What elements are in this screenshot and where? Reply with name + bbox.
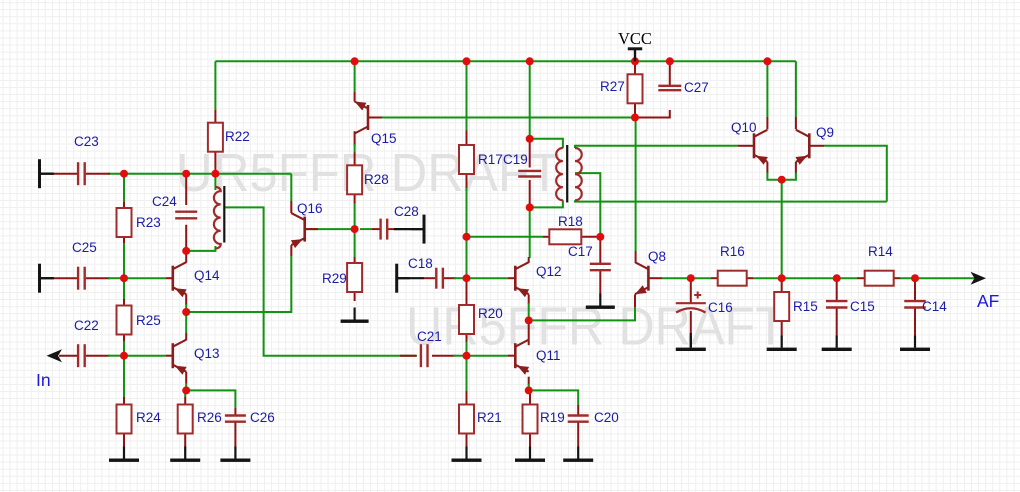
capacitor C27 (658, 80, 708, 95)
wire Q11 emitter lead (528, 377, 530, 385)
wire C19 top lead (529, 139, 531, 168)
wire R14 left lead (857, 277, 865, 279)
wire input row (108, 173, 291, 175)
wire Q9 emitter lead (795, 162, 797, 174)
resistor R21 (459, 405, 502, 434)
wire R20 bottom lead (466, 335, 468, 342)
wire emitter join left (767, 173, 781, 180)
wire C16 ground stem (690, 333, 692, 348)
ground R29 (341, 308, 369, 323)
resistor R19 (523, 405, 565, 434)
wire Q15 base stub (368, 117, 382, 119)
svg-text:R24: R24 (136, 410, 161, 425)
ground R15 (767, 336, 797, 351)
capacitor C17 (568, 244, 611, 270)
wire Q14 base stub (166, 277, 173, 279)
wire C18 terminal lead (398, 277, 424, 279)
wire C27 bottom link (635, 110, 670, 118)
node rail-C27 (666, 57, 674, 65)
resistor R23 (117, 208, 161, 237)
node Q11-emitter-node (525, 386, 533, 394)
resistor R24 (117, 405, 162, 434)
svg-text:Q11: Q11 (536, 348, 561, 363)
capacitor C25 (72, 240, 97, 290)
wire C26 bottom lead (234, 422, 236, 447)
wire R28 bottom lead (354, 194, 356, 204)
wire Q9 collector lead (795, 117, 797, 129)
svg-text:Q8: Q8 (648, 249, 666, 264)
wire C21 lead left (400, 355, 416, 357)
capacitor C19 (503, 152, 541, 177)
wire coil tap line (225, 207, 417, 355)
wire primary bottom link (530, 200, 563, 207)
wire R23 top (123, 174, 125, 202)
wire R18 left wire (467, 236, 544, 238)
svg-text:R28: R28 (364, 172, 389, 187)
capacitor C16 (676, 292, 733, 316)
wire Q13 base wire (124, 355, 166, 357)
wire C27 top lead (669, 61, 671, 85)
wire R25 to node (123, 341, 125, 356)
svg-text:Q15: Q15 (371, 131, 397, 146)
wire secondary top link (575, 146, 738, 148)
resistor R22 (208, 123, 250, 152)
wire Q14 collector lead (185, 251, 187, 263)
transistor Q8 (635, 249, 666, 294)
wire C28 to terminal (394, 228, 424, 230)
svg-text:In: In (36, 370, 51, 390)
resistor R26 (178, 405, 222, 434)
transformer T1 primary (556, 148, 563, 200)
wire Q15 emitter lead (354, 92, 356, 102)
wire C14 bottom lead (914, 308, 916, 336)
transistor Q13 (173, 340, 220, 375)
resistor R14 (865, 244, 894, 286)
svg-text:C16: C16 (708, 300, 733, 315)
wire Q11 base wire (467, 355, 509, 357)
wire C28 right lead (388, 228, 396, 230)
wire In shaft (59, 355, 77, 357)
wire C23 terminal lead (40, 173, 54, 175)
wire C23 right lead (86, 173, 110, 175)
svg-text:C28: C28 (394, 204, 419, 219)
wire secondary bottom link (575, 200, 887, 201)
wire Q13 emitter lead (185, 372, 187, 384)
node rail-Q15 (351, 57, 359, 65)
svg-text:R23: R23 (136, 215, 161, 230)
wire Q11 emitter green (528, 384, 530, 390)
capacitor C14 (904, 299, 947, 314)
wire R18 left lead (543, 236, 550, 238)
wire C20 top lead (577, 405, 579, 415)
transistor Q11 (515, 340, 560, 375)
wire Q10 collector lead (766, 117, 768, 129)
wire emitter drop (781, 180, 783, 279)
svg-text:C18: C18 (408, 256, 433, 271)
wire coil bottom link (186, 246, 215, 251)
wire Q11 emitter row (529, 390, 579, 405)
node C14-node (911, 274, 919, 282)
svg-text:C26: C26 (250, 410, 275, 425)
wire C25 right lead (86, 277, 110, 279)
node C15-node (833, 274, 841, 282)
ground C15 (822, 336, 852, 351)
svg-text:C15: C15 (850, 299, 875, 314)
wire R22 to coil (214, 174, 216, 190)
svg-text:C23: C23 (74, 134, 99, 149)
ground R24 (109, 447, 139, 462)
wire C21 right lead (432, 355, 455, 357)
wire Q14 emitter row (186, 256, 291, 312)
wire R26 top lead (184, 397, 186, 405)
power VCC (618, 29, 652, 61)
node Q9Q10-emitter-node (778, 176, 786, 184)
port In arrow (47, 349, 63, 362)
terminal input top (38, 159, 54, 188)
wire R28 to node (354, 204, 356, 230)
wire Q8 collector line (635, 118, 637, 252)
wire R19 top lead (529, 390, 531, 404)
wire VCC rail (215, 60, 796, 62)
svg-text:R25: R25 (136, 313, 161, 328)
svg-text:R27: R27 (600, 79, 625, 94)
wire C24 branch (185, 174, 187, 205)
wire Q9 base stub (809, 145, 824, 147)
port AF arrow (971, 272, 987, 285)
wire Q16 base stub (305, 228, 318, 230)
wire C15 bottom lead (836, 308, 838, 336)
wire R25 bottom lead (123, 334, 125, 341)
wire Q9 collector feed (795, 61, 797, 117)
wire R14 right lead (894, 277, 901, 279)
wire R29 top (354, 229, 356, 257)
wire Q12 base wire (467, 277, 509, 279)
wire C25 terminal lead (41, 277, 54, 279)
svg-text:Q13: Q13 (194, 346, 220, 361)
resistor R15 (774, 292, 818, 321)
svg-text:R14: R14 (868, 244, 893, 259)
wire R17 top feed (466, 61, 468, 130)
wire R21 top (466, 356, 468, 391)
svg-text:C21: C21 (417, 329, 442, 344)
wire Q11 base stub (508, 355, 515, 357)
wire R28 top lead (354, 153, 356, 166)
resistor R18 (549, 214, 582, 244)
wire R24 top (123, 356, 125, 397)
wire Q16 base wire (306, 228, 355, 230)
wire output line 2 (753, 277, 857, 279)
svg-text:C22: C22 (74, 318, 99, 333)
wire Q10 emitter lead (766, 162, 768, 174)
terminal C28 end (411, 215, 426, 244)
svg-text:Q9: Q9 (816, 125, 834, 140)
capacitor C21 (417, 329, 442, 367)
wire base rail Q15 (381, 117, 635, 119)
wire Q8 emitter lead (634, 294, 636, 307)
svg-text:R18: R18 (558, 214, 583, 229)
resistor R16 (718, 244, 747, 286)
wire R20 top lead (466, 278, 468, 304)
wire Q13 base stub (166, 355, 173, 357)
svg-text:R26: R26 (197, 410, 222, 425)
svg-text:Q12: Q12 (536, 264, 562, 279)
svg-text:VCC: VCC (618, 29, 652, 48)
node C24-L-node (182, 247, 190, 255)
wire R22 top lead (214, 110, 216, 124)
wire Q13 collector lead (185, 333, 187, 340)
wire R18 right lead (581, 236, 600, 238)
svg-text:R20: R20 (478, 306, 503, 321)
svg-text:R29: R29 (322, 271, 347, 286)
wire R17 bottom lead (466, 174, 468, 190)
wire C23 left lead (54, 173, 77, 175)
wire R22 top feed (214, 61, 216, 110)
wire R29 bottom lead (354, 291, 356, 301)
wire Q13 emitter row (186, 390, 235, 408)
terminal input mid (38, 264, 54, 293)
ground C16 (676, 336, 706, 351)
transistor Q10 (731, 120, 768, 165)
ground C20 (563, 447, 593, 462)
svg-text:R19: R19 (540, 410, 565, 425)
wire Q12 base stub (508, 277, 515, 279)
node rail-R17 (463, 57, 471, 65)
wire Q16 collector lead (290, 201, 292, 213)
wire Q14 emitter green (185, 304, 187, 312)
node rail-C19 (526, 57, 534, 65)
ground C17 (586, 294, 615, 309)
wire R22 bottom lead (214, 151, 216, 174)
node R15-node (778, 274, 786, 282)
svg-text:C17: C17 (568, 244, 593, 259)
node Q16-base-node (351, 225, 359, 233)
wire R23 bottom lead (123, 236, 125, 243)
terminal C18 end (395, 264, 410, 293)
transformer T1 secondary (575, 148, 582, 200)
wire Q12 emitter green (528, 303, 530, 320)
svg-text:C25: C25 (72, 240, 97, 255)
wire primary top link (530, 139, 563, 148)
transistor Q14 (173, 262, 220, 297)
wire Q15 collector green (354, 144, 356, 153)
wire output line 3 (900, 277, 977, 279)
wire C18 left lead (424, 277, 435, 279)
wire R19 bottom lead (529, 434, 531, 448)
wire Q15 emitter to rail (354, 61, 356, 92)
wire C14 top lead (914, 278, 916, 301)
wire R26 bottom lead (184, 434, 186, 448)
ground R19 (515, 447, 545, 462)
capacitor C26 (225, 410, 275, 425)
wire R16 left lead (711, 277, 718, 279)
resistor R27 (600, 74, 643, 103)
node input-R23 (120, 170, 128, 178)
wire secondary tap link (575, 173, 600, 237)
wire Q12 collector (529, 207, 531, 258)
wire R24 top lead (123, 397, 125, 405)
ground R26 (170, 447, 200, 462)
wire R15 top lead (781, 278, 783, 291)
wire C19 top feed (529, 61, 531, 139)
transistor Q9 (796, 125, 835, 165)
ground R21 (452, 447, 482, 462)
svg-text:C27: C27 (684, 80, 709, 95)
inductor L1 core (223, 186, 225, 243)
wire R23 to node (123, 243, 125, 278)
wire C16 bottom lead (690, 311, 692, 334)
capacitor C23 (74, 134, 99, 185)
node C22-node (120, 352, 128, 360)
capacitor C20 (568, 410, 619, 425)
wire C20 bottom lead (577, 422, 579, 447)
ground C26 (220, 447, 250, 462)
svg-text:Q14: Q14 (194, 268, 220, 283)
resistor R20 (459, 305, 503, 334)
wire Q13 emitter green (185, 383, 187, 390)
svg-text:C24: C24 (152, 194, 177, 209)
wire C28 left green (360, 228, 372, 230)
wire C24 bottom lead (185, 225, 187, 251)
wire output line 1 (691, 277, 711, 279)
node input-C24 (182, 170, 190, 178)
wire Q8 base wire (662, 277, 691, 279)
wire R27 top lead (634, 61, 636, 75)
wire Q16 collector drop (290, 174, 292, 201)
wire R21 bottom lead (466, 434, 468, 448)
transistor Q16 (291, 201, 323, 248)
capacitor C22 (74, 318, 99, 367)
capacitor C28 (381, 204, 419, 240)
wire R21 top lead (466, 391, 468, 405)
wire R20 to node (466, 342, 468, 356)
wire emitter join right (782, 173, 796, 180)
wire C26 top lead (234, 408, 236, 415)
resistor R25 (117, 306, 161, 335)
svg-text:R15: R15 (793, 299, 818, 314)
wire Q14 base wire (124, 277, 166, 279)
wire R17 top lead (466, 131, 468, 146)
wire C25 left lead (54, 277, 77, 279)
inductor L1 winding (214, 187, 221, 249)
wire Q8 collector lead (635, 251, 637, 263)
svg-text:Q16: Q16 (297, 201, 323, 216)
capacitor C15 (826, 299, 875, 314)
wire Q16 emitter lead (290, 245, 292, 256)
svg-text:AF: AF (977, 291, 999, 311)
capacitor C24 (152, 194, 197, 218)
wire R24 bottom lead (123, 434, 125, 448)
wire C22 to node (108, 355, 124, 357)
wire R17 node to C18 node (466, 237, 468, 278)
resistor R29 (322, 263, 362, 292)
wire C15 top lead (836, 278, 838, 301)
svg-text:C20: C20 (594, 410, 619, 425)
wire Q12 emitter lead (528, 294, 530, 304)
wire C18 right lead (444, 277, 456, 279)
transistor Q12 (515, 262, 561, 297)
wire C25 to node (108, 277, 124, 279)
node rail-Q10 (763, 57, 771, 65)
wire Q11 collector lead (528, 320, 530, 345)
wire C17 bottom lead (599, 270, 601, 294)
wire Q10 collector feed (766, 61, 768, 117)
ground C14 (900, 336, 930, 351)
wire Q15 collector lead (354, 131, 356, 146)
wire R23 top lead (123, 202, 125, 209)
node rail-VCC (631, 57, 639, 65)
svg-text:R21: R21 (477, 410, 502, 425)
wire R27 bottom lead (634, 103, 636, 118)
resistor R28 (347, 165, 389, 194)
wire Q9 base wire (824, 146, 887, 202)
wire C22 right lead (86, 355, 110, 357)
svg-text:C19: C19 (503, 152, 528, 167)
wire R29 top lead (354, 257, 356, 264)
wire Q8 base stub (648, 277, 662, 279)
wire C21 to node (453, 355, 467, 357)
wire Q12 collector lead (528, 257, 530, 263)
node input-R22 (211, 170, 219, 178)
wire R25 top (123, 278, 125, 299)
wire R25 top lead (123, 299, 125, 306)
wire R17 to R18 node (466, 188, 468, 237)
capacitor C18 (408, 256, 443, 289)
wire R26 top (184, 390, 186, 397)
wire C18 to node (454, 277, 467, 279)
node R27-bottom (631, 114, 639, 122)
wire Q10 base stub (738, 145, 754, 147)
node Q8-base-node (687, 274, 695, 282)
node C18-node (463, 274, 471, 282)
node C25-node (120, 274, 128, 282)
wire Q12 emitter row (529, 306, 635, 320)
node R18-right (596, 233, 604, 241)
svg-text:R17: R17 (478, 152, 503, 167)
svg-text:Q10: Q10 (731, 120, 757, 135)
wire R15 bottom lead (781, 322, 783, 337)
transformer T1 core (566, 145, 568, 203)
wire C19 bottom lead (529, 180, 531, 207)
node C19-top (526, 135, 534, 143)
wire C28 left lead (372, 228, 380, 230)
wire R16 right lead (747, 277, 754, 279)
node C21-node (463, 352, 471, 360)
node C19-bottom (526, 203, 534, 211)
transistor Q15 (355, 102, 397, 147)
wire C16 top lead (690, 278, 692, 302)
resistor R17 (459, 145, 503, 174)
svg-text:R16: R16 (720, 244, 745, 259)
svg-text:C14: C14 (922, 299, 947, 314)
svg-text:R22: R22 (225, 129, 250, 144)
wire Q14 emitter lead (185, 294, 187, 305)
wire C17 top lead (599, 237, 601, 264)
node Q12-emitter-node (525, 316, 533, 324)
node R18-left (463, 233, 471, 241)
node Q14-emitter-node (182, 308, 190, 316)
node Q13-emitter-node (182, 386, 190, 394)
wire Q13 collector (185, 312, 187, 333)
